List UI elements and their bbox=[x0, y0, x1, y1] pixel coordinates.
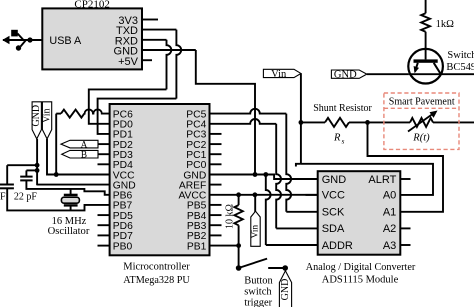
svg-text:22 pF: 22 pF bbox=[14, 191, 38, 202]
svg-text:switch: switch bbox=[244, 287, 272, 298]
svg-text:Button: Button bbox=[244, 276, 273, 287]
svg-text:VCC: VCC bbox=[322, 190, 345, 202]
svg-text:+5V: +5V bbox=[118, 56, 139, 68]
svg-text:A: A bbox=[81, 140, 88, 150]
svg-text:ATMega328 PU: ATMega328 PU bbox=[123, 275, 190, 286]
svg-text:GND: GND bbox=[334, 70, 357, 81]
svg-text:trigger: trigger bbox=[244, 297, 272, 307]
svg-text:Switch: Switch bbox=[447, 50, 474, 61]
svg-text:SDA: SDA bbox=[322, 223, 345, 235]
svg-text:Vin: Vin bbox=[251, 225, 261, 239]
svg-text:SCK: SCK bbox=[322, 207, 345, 219]
svg-text:B: B bbox=[81, 150, 87, 160]
svg-text:PB0: PB0 bbox=[113, 241, 133, 252]
svg-text:A2: A2 bbox=[383, 223, 396, 235]
svg-text:ADS1115 Module: ADS1115 Module bbox=[322, 275, 399, 286]
svg-text:Shunt Resistor: Shunt Resistor bbox=[313, 103, 372, 114]
svg-text:10 kΩ: 10 kΩ bbox=[225, 204, 236, 229]
svg-text:Oscillator: Oscillator bbox=[48, 226, 90, 237]
svg-text:CP2102: CP2102 bbox=[74, 0, 109, 10]
svg-text:Microcontroller: Microcontroller bbox=[123, 262, 190, 273]
svg-text:PB1: PB1 bbox=[187, 241, 207, 252]
svg-text:ADDR: ADDR bbox=[322, 240, 353, 252]
svg-text:Analog / Digital Converter: Analog / Digital Converter bbox=[306, 262, 416, 273]
svg-text:USB A: USB A bbox=[49, 35, 82, 47]
svg-text:GND: GND bbox=[322, 174, 347, 186]
svg-text:A1: A1 bbox=[383, 207, 396, 219]
svg-text:BC549: BC549 bbox=[446, 62, 474, 73]
svg-text:GND: GND bbox=[280, 279, 291, 301]
svg-text:Smart Pavement: Smart Pavement bbox=[389, 96, 455, 107]
svg-text:A3: A3 bbox=[383, 240, 396, 252]
svg-text:ALRT: ALRT bbox=[368, 174, 396, 186]
svg-text:Vin: Vin bbox=[271, 69, 287, 80]
svg-text:A0: A0 bbox=[383, 190, 396, 202]
svg-text:F: F bbox=[0, 191, 6, 202]
svg-text:Vin: Vin bbox=[42, 108, 53, 122]
svg-text:R: R bbox=[333, 133, 341, 144]
svg-text:s: s bbox=[342, 137, 345, 146]
svg-text:R(t): R(t) bbox=[412, 132, 430, 143]
svg-text:1kΩ: 1kΩ bbox=[436, 19, 455, 30]
